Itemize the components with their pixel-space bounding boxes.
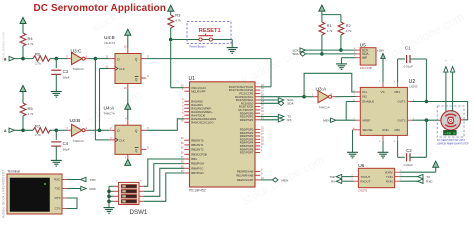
svg-text:RE1/WR/AN6: RE1/WR/AN6 xyxy=(236,173,254,177)
motor display +88.8 xyxy=(444,130,457,135)
svg-text:TXOUT: TXOUT xyxy=(360,175,370,179)
svg-text:IN1: IN1 xyxy=(362,90,367,94)
svg-text:VREF: VREF xyxy=(362,118,370,122)
wire C1 to OUT1 xyxy=(410,58,426,60)
eeprom U5 xyxy=(360,48,376,65)
svg-text:0.01uF: 0.01uF xyxy=(404,163,414,167)
svg-text:RD7/PSP7: RD7/PSP7 xyxy=(240,151,254,155)
microcontroller U1 PIC18F452 xyxy=(190,82,256,187)
wire DSW1 switch 4 to PIC RB7 xyxy=(144,173,185,201)
svg-text:TXIN: TXIN xyxy=(386,175,393,179)
wire U4:B CLR to power arrow xyxy=(127,89,129,121)
wire U2 SENSE to ground xyxy=(352,130,354,153)
svg-text:RB1/INT1: RB1/INT1 xyxy=(191,143,204,147)
junction C2/OUT2 xyxy=(425,118,429,122)
svg-text:50pF: 50pF xyxy=(63,76,70,80)
wire RC6 to TX flag xyxy=(260,116,278,118)
wire U5 WP to ground xyxy=(342,57,357,59)
svg-text:24LC01B: 24LC01B xyxy=(360,66,372,70)
svg-text:CB2: CB2 xyxy=(394,128,400,132)
svg-text:CB1: CB1 xyxy=(394,90,400,94)
ground WP xyxy=(336,64,347,70)
wire U3:C out down to U4:A CLK xyxy=(94,59,96,140)
svg-text:MCLR/VPP: MCLR/VPP xyxy=(191,89,205,93)
svg-text:Q: Q xyxy=(135,149,138,153)
svg-text:CLK: CLK xyxy=(119,138,125,142)
svg-text:RXD: RXD xyxy=(54,178,60,182)
junction R1/SDA xyxy=(320,52,324,56)
wire terminal TXD to RXD flag xyxy=(67,188,81,190)
wire U6 RXIN to RXD flag xyxy=(399,180,417,182)
svg-text:SDA: SDA xyxy=(287,102,293,106)
power arrow U4:B PRE xyxy=(125,29,131,35)
svg-text:0.01uF: 0.01uF xyxy=(404,65,414,69)
wire C2 to OUT2 xyxy=(410,156,426,158)
wire RX flag to U6 xyxy=(342,180,354,182)
svg-text:RXOUT: RXOUT xyxy=(360,179,370,183)
U4:B pin Qbar stub (8) xyxy=(141,77,146,79)
svg-text:RE2/CS/AN7: RE2/CS/AN7 xyxy=(237,178,254,182)
wire +28V to VS xyxy=(382,59,384,83)
U4:A pin D stub (2) xyxy=(110,129,115,131)
wire node to U4:B D xyxy=(95,58,109,60)
junction node R5/A xyxy=(21,129,25,133)
wire U6 VDRV to power xyxy=(399,171,435,173)
svg-text:OUT2: OUT2 xyxy=(397,118,405,122)
junction node U3:B out xyxy=(98,129,102,133)
U4:B pin CLR stub (13) xyxy=(127,84,129,89)
wire CB1 to C1 xyxy=(397,59,399,83)
wire node over U3:A to U2 IN1 xyxy=(304,73,355,96)
power arrow above R1 xyxy=(319,5,325,11)
wire reset rail xyxy=(171,39,233,41)
pushbutton RESET1 dashed box xyxy=(187,22,231,44)
dip switch DSW1 xyxy=(119,182,139,204)
svg-text:C2: C2 xyxy=(406,148,412,153)
svg-text:CTS: CTS xyxy=(55,207,61,211)
svg-text:CLK: CLK xyxy=(119,67,125,71)
resistor R5 xyxy=(20,103,26,116)
inverter U3:B xyxy=(72,124,83,136)
U3:A output stub xyxy=(332,96,335,98)
U4:B pin D stub (12) xyxy=(110,58,115,60)
svg-text:RB2/INT2: RB2/INT2 xyxy=(191,148,204,152)
svg-text:2.7k: 2.7k xyxy=(28,42,34,46)
flip-flop U4:B xyxy=(115,54,141,84)
svg-text:Q: Q xyxy=(135,129,138,133)
svg-text:2.7k: 2.7k xyxy=(35,61,41,65)
U3:B output stub xyxy=(85,129,88,131)
net flag RXD (U6) xyxy=(418,179,424,183)
junction DSW1 rail dots xyxy=(107,190,111,194)
wire CB2 to C2 xyxy=(397,140,399,157)
svg-text:R7: R7 xyxy=(35,123,41,128)
svg-text:L6203: L6203 xyxy=(409,84,418,88)
input terminal B xyxy=(9,56,15,60)
wire R7 to C4 node xyxy=(50,129,56,131)
svg-text:C3: C3 xyxy=(63,69,69,74)
net flag TXD (terminal) xyxy=(81,177,87,181)
op-amp U3:C pin stub in xyxy=(67,58,72,60)
sensor terminal B xyxy=(450,67,454,73)
net flag TX (U6) xyxy=(418,174,424,178)
wire RE2 to MEN flag xyxy=(260,179,272,181)
ground U2 xyxy=(378,152,389,158)
svg-text:PIC18F452: PIC18F452 xyxy=(189,189,206,193)
svg-text:RB7/PGD: RB7/PGD xyxy=(191,171,203,175)
svg-text:R4: R4 xyxy=(28,36,34,41)
flip-flop U4:A xyxy=(115,125,141,154)
junction node U3:C out xyxy=(94,57,98,61)
svg-text:RTS: RTS xyxy=(55,196,61,200)
U4:A pin Qbar stub (6) xyxy=(141,148,146,150)
wire node to U4:A D xyxy=(100,129,110,131)
junction node C4 xyxy=(55,129,59,133)
U4:A pin Q stub (5) xyxy=(141,129,146,131)
wire R5 to node xyxy=(22,116,24,130)
svg-text:RX: RX xyxy=(287,118,291,122)
U2 top pin stubs xyxy=(382,83,384,88)
svg-text:4.7k: 4.7k xyxy=(346,29,352,33)
svg-text:U6: U6 xyxy=(358,163,364,169)
svg-text:Adobe Stock | #494369737: Adobe Stock | #494369737 xyxy=(1,169,6,218)
svg-text:VS: VS xyxy=(381,90,385,94)
resistor R6 xyxy=(33,56,50,62)
resistor R7 xyxy=(33,128,50,134)
power arrow above R5 xyxy=(20,86,26,92)
svg-text:MEN: MEN xyxy=(323,119,330,123)
U4:A pin CLK stub (3) xyxy=(110,139,115,141)
svg-text:RB0/INT0: RB0/INT0 xyxy=(191,138,204,142)
svg-text:Reset Button: Reset Button xyxy=(190,45,207,49)
svg-text:U3:C: U3:C xyxy=(71,48,82,54)
svg-text:DS275: DS275 xyxy=(358,189,367,193)
net flag TX (U1) xyxy=(278,114,284,118)
wire power to R1 xyxy=(321,11,323,22)
servo motor dashed box xyxy=(437,106,464,137)
capacitor C2 xyxy=(407,153,410,161)
svg-text:RXD: RXD xyxy=(90,187,97,191)
svg-text:RB6/PGC: RB6/PGC xyxy=(191,166,203,170)
svg-text:U1: U1 xyxy=(189,76,196,82)
ground C4 xyxy=(51,160,62,166)
sensor terminal A xyxy=(444,67,448,73)
wire reset to ground xyxy=(231,40,233,48)
svg-text:DSW1: DSW1 xyxy=(130,209,148,216)
U4:A pin PRE stub (4) xyxy=(127,120,129,125)
wire power to R3 xyxy=(170,11,172,15)
svg-text:2.7k: 2.7k xyxy=(35,133,41,137)
terminal pin stubs xyxy=(62,179,67,181)
ground SENSE xyxy=(347,152,358,158)
ground C3 xyxy=(51,92,62,98)
wire RTS-CTS loop xyxy=(67,198,78,209)
svg-text:TXD: TXD xyxy=(55,187,61,191)
net flag RXD (terminal) xyxy=(81,186,87,190)
junction node C3 xyxy=(55,57,59,61)
interface U6 DS275 xyxy=(358,168,394,187)
wire DSW1 common rail xyxy=(108,186,110,207)
capacitor C1 xyxy=(407,55,410,63)
U5 pin stubs xyxy=(356,49,360,51)
capacitor C4 xyxy=(55,130,57,140)
resistor R1 xyxy=(319,22,325,35)
motor driver U2 L6203 xyxy=(360,87,407,135)
U2 left pin stubs xyxy=(356,91,361,93)
ground DSW1 xyxy=(104,208,115,214)
svg-text:SENSE: SENSE xyxy=(362,128,372,132)
wire SDA line xyxy=(306,53,357,55)
svg-text:RD2/PSP2: RD2/PSP2 xyxy=(240,118,254,122)
U4:B pin PRE stub (10) xyxy=(127,48,129,53)
power arrow above R3 xyxy=(168,5,174,11)
svg-text:74HC14: 74HC14 xyxy=(73,67,84,71)
svg-text:Q: Q xyxy=(135,78,138,82)
svg-text:R5: R5 xyxy=(28,106,34,111)
svg-text:R2: R2 xyxy=(346,23,352,28)
wire terminal RXD to TXD flag xyxy=(67,179,81,181)
wire C3 to ground xyxy=(55,74,57,91)
svg-text:RESET1: RESET1 xyxy=(199,28,221,34)
svg-text:OUT1: OUT1 xyxy=(397,100,405,104)
wire U3:B out to node xyxy=(89,129,100,131)
svg-text:WP: WP xyxy=(362,56,367,60)
power arrow U4:A CLR xyxy=(125,159,131,165)
wire node to U3:A input xyxy=(304,96,314,98)
motor sensor wire B xyxy=(452,72,454,111)
svg-text:74HC74: 74HC74 xyxy=(104,41,115,45)
wire U3:B out up to U4:B CLK xyxy=(99,69,101,131)
wire RC3 to SCK flag xyxy=(260,99,278,101)
svg-text:stock.adobe.com: stock.adobe.com xyxy=(1,31,6,62)
wire node to U3:B input xyxy=(56,129,67,131)
wire OUT2 to motor xyxy=(412,119,439,121)
junction node reset xyxy=(169,38,173,42)
power arrow VDRV xyxy=(433,161,439,167)
svg-text:ENABLE: ENABLE xyxy=(362,100,374,104)
svg-text:RXIN: RXIN xyxy=(386,179,393,183)
svg-text:4.7k: 4.7k xyxy=(175,19,181,23)
svg-text:IN2: IN2 xyxy=(362,95,367,99)
wire U4:A Q to PIC RA5 xyxy=(146,119,184,131)
wire DSW1 switch 1 to PIC RB4 xyxy=(144,159,185,186)
wire U6 TXIN to TX flag xyxy=(399,176,417,178)
svg-text:R1: R1 xyxy=(327,23,333,28)
ground RESET xyxy=(227,48,238,54)
wire DSW1 switch 3 to PIC RB6 xyxy=(144,168,185,196)
svg-text:Terminal: Terminal xyxy=(8,170,21,174)
capacitor C3 xyxy=(55,59,57,69)
svg-text:TXD: TXD xyxy=(329,175,335,179)
resistor R4 xyxy=(20,33,26,46)
svg-text:Q: Q xyxy=(135,57,138,61)
svg-text:2.7k: 2.7k xyxy=(28,112,34,116)
wire R3 to reset node xyxy=(170,28,172,40)
junction R2/SCK xyxy=(339,48,343,52)
wire RC4 to SDA flag xyxy=(260,102,278,104)
wire SCK line xyxy=(306,49,357,51)
net flag SCK (U1) xyxy=(278,98,284,102)
svg-text:R6: R6 xyxy=(35,52,41,57)
wire MEN to U2 VREF xyxy=(336,119,356,121)
svg-text:RXD: RXD xyxy=(426,180,432,184)
U3:C output stub xyxy=(85,58,88,60)
power arrow above R4 xyxy=(20,18,26,24)
wire R1 to SDA line xyxy=(321,35,323,54)
wire RC7 to RX flag xyxy=(260,119,278,121)
wire input B to R6 xyxy=(15,58,34,60)
wire U3:A out to U2 IN2 xyxy=(335,96,356,98)
svg-text:TXD: TXD xyxy=(90,178,97,182)
net flag MEN (U1) xyxy=(273,178,279,183)
wire U3:C out to node xyxy=(89,58,96,60)
wire power to R5 xyxy=(22,92,24,104)
junction C1/OUT1 xyxy=(425,100,429,104)
resistor R2 xyxy=(338,22,344,35)
servo motor MOTOR1 xyxy=(441,111,461,131)
svg-text:RB3/CCP2B: RB3/CCP2B xyxy=(191,152,207,156)
net flag SDA (U1) xyxy=(278,101,284,106)
wire RC2 to node xyxy=(260,96,304,98)
svg-text:RA6/OSC2/CLKO: RA6/OSC2/CLKO xyxy=(191,120,214,124)
U3:B input stub xyxy=(67,129,72,131)
U4:B pin CLK stub (11) xyxy=(110,68,115,70)
U4:B pin Q stub (9) xyxy=(141,58,146,60)
svg-text:4.7k: 4.7k xyxy=(327,29,333,33)
inverter U3:C xyxy=(72,53,83,65)
U2 bottom pin stubs xyxy=(382,135,384,140)
wire MEN branch to U2 ENABLE xyxy=(345,102,347,121)
wire TXD flag to U6 xyxy=(342,176,354,178)
wire U4:B Q to PIC RC0 loop xyxy=(146,58,271,60)
svg-text:RB5/PGM: RB5/PGM xyxy=(191,162,204,166)
wire input A to R7 xyxy=(15,129,34,131)
wire OUT1 to motor xyxy=(412,102,468,120)
svg-text:GND: GND xyxy=(382,128,390,132)
wire power to U4:B PRE xyxy=(127,35,129,48)
wire C4 to ground xyxy=(55,146,57,160)
U2 right pin stubs xyxy=(407,101,412,103)
junction node U3:A in xyxy=(302,95,306,99)
svg-text:74HC14: 74HC14 xyxy=(319,105,330,109)
input terminal A xyxy=(9,128,15,132)
U6 pin stubs xyxy=(354,176,359,178)
svg-text:R3: R3 xyxy=(175,13,181,18)
net flag RX (U1) xyxy=(278,118,284,122)
svg-text:50pF: 50pF xyxy=(63,147,70,151)
wire R4 to node xyxy=(22,46,24,59)
resistor R3 xyxy=(168,15,174,28)
junction node R4/B xyxy=(21,57,25,61)
wire DSW1 switch 2 to PIC RB5 xyxy=(144,164,185,192)
wire reset node to PIC MCLR xyxy=(170,40,172,88)
svg-text:U3:A: U3:A xyxy=(316,86,327,92)
motor sensor wire A xyxy=(445,72,447,111)
wire R2 to SCK line xyxy=(340,35,342,50)
U3:A input stub xyxy=(314,96,318,98)
svg-text:74HC14: 74HC14 xyxy=(73,139,84,143)
inverter U3:A xyxy=(318,91,329,103)
wire node to U3:C input xyxy=(56,58,67,60)
power arrow mid (U4:A PRE) xyxy=(125,103,131,109)
svg-text:RX: RX xyxy=(331,180,335,184)
svg-text:TX: TX xyxy=(426,175,430,179)
svg-text:RB4: RB4 xyxy=(191,157,197,161)
U4:A pin CLR stub (1) xyxy=(127,154,129,159)
wire power to R4 xyxy=(22,24,24,34)
wire R6 to C3 node xyxy=(50,58,56,60)
wire U2 GND to ground xyxy=(382,140,384,152)
